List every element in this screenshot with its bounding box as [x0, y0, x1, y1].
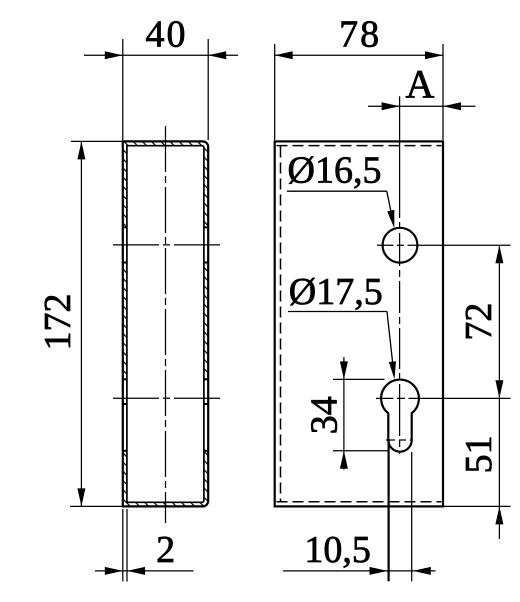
hatch right wall segment 2: [204, 263, 207, 380]
dimension 40 line: [84, 54, 238, 56]
keyhole slot outline: [381, 380, 419, 452]
hole edge tick left wall keyhole mid: [122, 403, 127, 405]
horizontal centerline upper hole: [377, 244, 424, 246]
dimension 2 arrow left: [105, 567, 123, 575]
outer rectangle of plate: [275, 141, 443, 506]
leader underline D17,5: [288, 311, 387, 313]
dimension 172 arrow bottom: [77, 488, 85, 506]
extension line 72 top: [424, 244, 511, 246]
dimension 34 arrow top: [340, 361, 348, 379]
extension line 72 bottom / 51 top: [426, 397, 511, 399]
dimension 40 arrow left: [105, 51, 123, 59]
dimension A line: [368, 105, 476, 107]
hole edge tick left wall top hole upper: [122, 226, 127, 228]
hole edge tick right wall keyhole mid: [204, 403, 209, 405]
dimension 72 arrow top: [495, 245, 503, 263]
slot left edge extended thick: [388, 440, 390, 581]
hatch left wall segment 1: [123, 146, 126, 228]
hatch right wall segment 3: [204, 451, 207, 503]
leader diagonal D16,5: [387, 191, 393, 219]
dimension A arrow left: [382, 102, 400, 110]
dimension 40 extension line right: [207, 39, 209, 140]
hidden dashed line left: [280, 147, 282, 502]
leader arrow D17,5: [389, 361, 396, 379]
vertical centerline of left view: [165, 126, 167, 523]
hatch left wall segment 3: [123, 451, 126, 503]
dimension 51 arrow bottom: [495, 506, 503, 524]
svg-text:Ø16,5: Ø16,5: [288, 149, 382, 191]
dimension 10,5 arrow right: [413, 567, 431, 575]
hole circle D16.5: [383, 228, 418, 263]
leader underline D16,5: [287, 190, 387, 192]
hole edge tick left wall keyhole upper: [122, 378, 127, 380]
dimension 2 line: [95, 570, 194, 572]
dimension 172 extension line top: [71, 140, 124, 142]
dimension 2 extension line left: [122, 509, 124, 582]
svg-text:Ø17,5: Ø17,5: [289, 271, 383, 313]
horizontal centerline left view upper hole: [113, 244, 220, 246]
dimension 172 line: [80, 141, 82, 506]
hole edge tick right wall top hole upper: [204, 226, 209, 228]
horizontal centerline slot bottom arc: [386, 439, 413, 441]
dimension 34 extension line bottom: [333, 450, 388, 452]
dimension 172 arrow top: [77, 141, 85, 159]
horizontal centerline keyhole: [376, 397, 426, 399]
hole edge tick left wall top hole lower: [122, 262, 127, 264]
leader arrow D16,5: [387, 210, 394, 229]
svg-text:172: 172: [37, 294, 79, 351]
hatch left wall segment 2: [123, 263, 126, 380]
dimension 2 extension line right: [126, 509, 128, 582]
dimension 78 extension line right and A right: [442, 44, 444, 140]
outer contour of section: [123, 141, 208, 506]
dimension 34 extension line top: [333, 378, 385, 380]
dimension 78 arrow right: [425, 51, 443, 59]
svg-text:78: 78: [339, 14, 381, 56]
dimension A arrow right: [443, 102, 461, 110]
hatch bottom wall: [123, 503, 207, 507]
dimension 78 line: [275, 54, 443, 56]
slot right edge extension thin: [411, 452, 413, 581]
svg-text:51: 51: [458, 435, 500, 473]
vertical centerline of holes: [399, 96, 401, 453]
dimension 2 arrow right: [127, 567, 145, 575]
dimension 10,5 line: [283, 570, 436, 572]
hole edge tick right wall top hole lower: [204, 262, 209, 264]
svg-text:40: 40: [146, 14, 188, 56]
dimension 34 arrow bottom: [340, 451, 348, 469]
inner contour of section: [127, 146, 204, 503]
leader diagonal D17,5: [387, 312, 393, 367]
dimension 72 and 51 line: [498, 245, 500, 539]
hole edge tick left wall keyhole lower: [122, 450, 127, 452]
svg-text:72: 72: [458, 303, 500, 341]
dimension 172 extension line bottom: [70, 505, 127, 507]
hidden dashed line bottom: [277, 501, 442, 503]
dimension 51 extension line bottom: [443, 505, 511, 507]
dimension 40 extension line left: [122, 39, 124, 140]
svg-text:10,5: 10,5: [304, 529, 371, 571]
dimension 78 arrow left: [275, 51, 293, 59]
svg-text:A: A: [406, 62, 435, 107]
dimension 72 arrow bottom: [495, 380, 503, 398]
hole edge tick right wall keyhole lower: [204, 450, 209, 452]
hatch top wall: [123, 142, 207, 146]
hidden dashed line top: [277, 145, 442, 147]
dimension 78 extension line left: [274, 44, 276, 140]
hole edge tick right wall keyhole upper: [204, 378, 209, 380]
svg-text:34: 34: [303, 396, 345, 434]
horizontal centerline left view keyhole: [113, 397, 220, 399]
hatch right wall segment 1: [204, 146, 207, 228]
svg-text:2: 2: [156, 529, 175, 571]
dimension 40 arrow right: [208, 51, 226, 59]
dimension 34 line: [343, 357, 345, 470]
dimension 10,5 arrow left: [370, 567, 388, 575]
